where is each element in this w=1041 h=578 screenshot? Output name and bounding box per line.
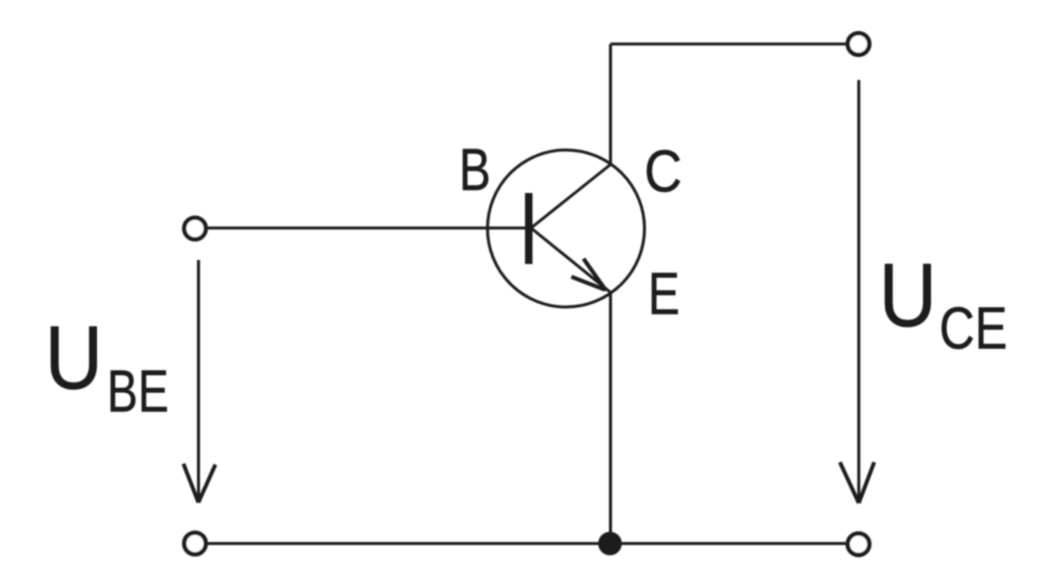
arrow: U_BE voltage arrow (shaft) (197, 260, 200, 500)
pin label C (644, 137, 682, 204)
svg-text:E: E (648, 261, 680, 327)
arrow: U_CE arrowhead (840, 462, 874, 503)
label U_BE (45, 309, 103, 409)
arrow: U_CE voltage arrow (shaft) (857, 80, 860, 500)
terminal: U_CE top open circle (848, 33, 870, 55)
transistor Q1 collector diagonal (531, 165, 611, 229)
svg-text:U: U (879, 246, 937, 346)
terminal: U_CE bottom open circle (848, 533, 870, 555)
wire: base horizontal from left terminal to base bar (208, 227, 525, 230)
transistor Q1 base bar (525, 193, 533, 264)
svg-text:CE: CE (939, 295, 1007, 362)
transistor Q1 body circle (488, 150, 645, 307)
wire: collector vertical segment (609, 44, 612, 166)
svg-text:B: B (459, 137, 491, 203)
terminal: bottom-left open circle (184, 533, 206, 555)
pin label B (459, 137, 491, 203)
transistor Q1 emitter diagonal (531, 228, 610, 292)
wire: emitter vertical segment down to bottom rail (609, 291, 612, 544)
arrow: U_BE arrowhead (183, 464, 215, 503)
svg-text:U: U (45, 309, 103, 409)
pin label E (648, 261, 680, 327)
transistor Q1 emitter arrowhead (571, 259, 606, 291)
wire: top horizontal rail (collector to U_CE top terminal) (611, 43, 846, 46)
svg-text:C: C (644, 137, 682, 204)
junction: emitter/bottom-rail node dot (599, 533, 621, 555)
terminal: input left open circle (184, 218, 206, 240)
svg-text:BE: BE (107, 359, 169, 425)
wire: bottom rail (208, 542, 846, 545)
label U_CE (879, 246, 937, 346)
